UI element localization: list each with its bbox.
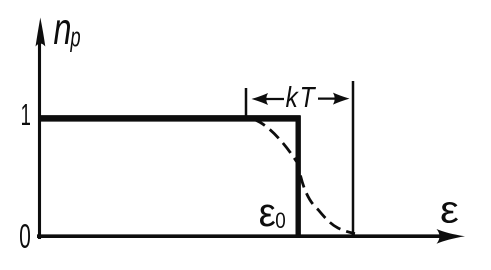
kT right arrow shaft (318, 97, 341, 99)
y-axis line (38, 42, 41, 239)
label 0 (20, 224, 30, 248)
dashed Fermi curve (254, 120, 355, 234)
x-axis line (37, 234, 442, 238)
label epsilon-0 subscript 0 (276, 213, 285, 229)
left tick marker (245, 88, 248, 117)
label epsilon on axis (442, 202, 459, 223)
kT left arrowhead (252, 93, 269, 105)
label epsilon-0 (260, 205, 275, 227)
y-axis arrowhead (36, 18, 46, 47)
step function horizontal segment (39, 115, 301, 122)
right vertical marker line (352, 81, 355, 236)
kT right arrowhead (333, 93, 350, 105)
label kT (286, 86, 316, 107)
label p subscript (70, 32, 80, 53)
label 1 (22, 104, 30, 125)
step function vertical segment (296, 116, 301, 237)
label n (54, 20, 70, 44)
kT left arrow shaft (266, 98, 284, 100)
x-axis arrowhead (437, 229, 466, 244)
